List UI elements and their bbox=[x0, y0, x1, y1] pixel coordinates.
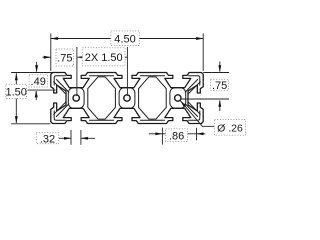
extension line right edge (4.50) bbox=[202, 34, 204, 71]
label .86 bbox=[166, 129, 188, 142]
web line bbox=[90, 119, 114, 121]
label .49 bbox=[29, 75, 47, 87]
extension line hole 1 bbox=[76, 47, 78, 96]
label .75 (right) bbox=[211, 79, 229, 90]
extension line right (.86) bbox=[196, 128, 198, 140]
boss around hole 2 bbox=[119, 88, 135, 108]
hole 3 (dia .26) bbox=[175, 95, 181, 101]
hole 2 (dia .26) bbox=[124, 95, 130, 101]
web line bbox=[185, 80, 197, 93]
svg-text:.75: .75 bbox=[57, 53, 72, 65]
web line bbox=[56, 104, 68, 117]
label 1.50 bbox=[6, 84, 27, 98]
web line bbox=[189, 111, 200, 120]
extension line slot neck left (.32) bbox=[70, 130, 72, 145]
svg-text:.86: .86 bbox=[169, 130, 184, 142]
web line bbox=[188, 82, 200, 95]
web line bbox=[140, 119, 164, 121]
label dia .26 bbox=[214, 120, 245, 136]
dimension line 1.50 bbox=[15, 73, 17, 123]
web line bbox=[185, 104, 197, 117]
web line bbox=[90, 75, 114, 77]
extension line left edge (4.50 / .75) bbox=[50, 34, 52, 71]
svg-text:.75: .75 bbox=[212, 80, 227, 92]
hole 1 (dia .26) bbox=[73, 95, 79, 101]
.49 arrows bbox=[36, 62, 38, 72]
dimension 2X 1.50 arrows bbox=[77, 56, 86, 58]
web line bbox=[54, 111, 65, 120]
extension line bottom surface (left) bbox=[11, 123, 50, 125]
extension line slot neck right (.32) bbox=[80, 130, 82, 145]
web line bbox=[54, 102, 66, 115]
web line bbox=[54, 82, 66, 95]
boss around hole 3 bbox=[170, 88, 186, 108]
web line bbox=[54, 76, 65, 85]
svg-text:2X 1.50: 2X 1.50 bbox=[85, 52, 123, 64]
.32 arrows bbox=[59, 137, 71, 139]
interior void bbox=[139, 77, 167, 119]
extrusion profile outline bbox=[51, 73, 203, 124]
label 4.50 bbox=[111, 31, 140, 46]
svg-text:4.50: 4.50 bbox=[114, 33, 135, 45]
web line bbox=[189, 76, 200, 85]
label .75 (left) bbox=[56, 49, 74, 66]
extension line top surface (right) bbox=[203, 72, 229, 74]
svg-text:.32: .32 bbox=[40, 133, 55, 145]
svg-text:1.50: 1.50 bbox=[5, 87, 26, 99]
svg-text:.49: .49 bbox=[31, 76, 46, 88]
interior void bbox=[88, 77, 116, 119]
extension line top surface (left, shared 1.50/.49) bbox=[11, 72, 52, 74]
extension line hole 2 bbox=[126, 47, 128, 96]
leader line to hole 3 bbox=[180, 101, 215, 127]
dimension .75 left: outside arrow bbox=[43, 56, 51, 58]
label 2X 1.50 bbox=[82, 48, 125, 66]
svg-text:Ø .26: Ø .26 bbox=[217, 122, 243, 134]
extension line end-slot cavity ceiling (.49) bbox=[28, 89, 56, 91]
dimension line .86 with outside arrows bbox=[149, 133, 163, 135]
boss around hole 1 bbox=[68, 88, 84, 108]
.75 right arrows bbox=[219, 62, 221, 72]
extension line left (.86) bbox=[161, 128, 163, 145]
web line bbox=[140, 75, 164, 77]
dimension line 4.50 bbox=[51, 38, 203, 40]
label .32 bbox=[36, 133, 58, 144]
web line bbox=[56, 80, 68, 93]
web line bbox=[188, 102, 200, 115]
extension line hole 3 center (right) bbox=[181, 98, 229, 100]
